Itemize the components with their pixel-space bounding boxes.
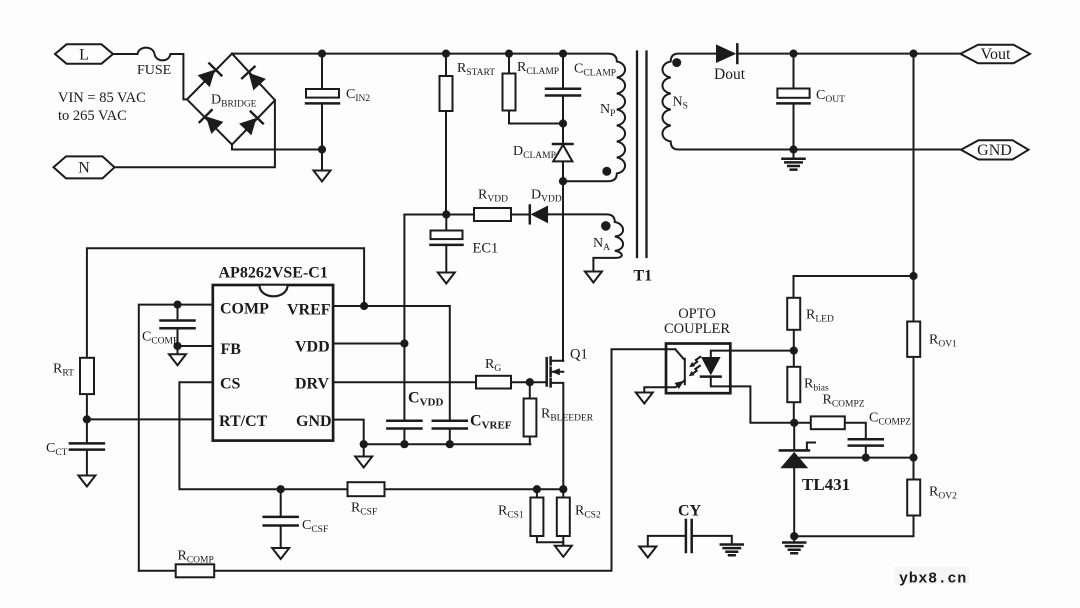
- opto coupler light arrow 2: [689, 366, 700, 377]
- diode bridge top-right: [242, 67, 266, 91]
- svg-text:COUPLER: COUPLER: [664, 321, 730, 337]
- node dot top rail CCLAMP: [559, 50, 567, 58]
- capacitor CVREF: [433, 421, 467, 429]
- wire CCSF stems: [280, 489, 282, 548]
- diode Dout: [716, 44, 737, 63]
- wire COUT lower stem: [793, 103, 795, 149]
- ground (open) CY left: [639, 547, 656, 558]
- wire VDD pin vertical: [403, 215, 405, 445]
- wire Vout rail: [738, 53, 961, 55]
- svg-text:ROV2: ROV2: [929, 485, 957, 502]
- wire VDD pin to IC: [333, 343, 404, 345]
- wire CY right: [692, 536, 732, 544]
- node dot top rail RSTART: [442, 50, 450, 58]
- transformer T1 primary winding NP: [563, 54, 625, 182]
- wire TL431 ref line: [800, 457, 914, 459]
- capacitor COUT bottom plate: [777, 102, 809, 105]
- svg-text:DRV: DRV: [295, 376, 330, 393]
- wire COUT upper stem: [793, 54, 795, 89]
- terminal GND: [961, 140, 1029, 159]
- svg-text:COUT: COUT: [816, 88, 845, 105]
- svg-text:RCLAMP: RCLAMP: [517, 60, 559, 77]
- resistor RRT: [80, 358, 94, 394]
- svg-text:CY: CY: [678, 503, 702, 520]
- transformer T1 secondary winding NS: [662, 54, 961, 150]
- svg-text:DBRIDGE: DBRIDGE: [211, 93, 257, 110]
- svg-text:DVDD: DVDD: [531, 188, 562, 205]
- resistor RG: [476, 376, 511, 389]
- wire RCS2 stems: [562, 536, 564, 546]
- terminal Vout: [961, 45, 1031, 64]
- node dot RT/CT RRT: [83, 415, 91, 423]
- svg-text:RCOMPZ: RCOMPZ: [823, 393, 865, 410]
- node dot cap rail CVREF: [446, 440, 454, 448]
- capacitor CIN2 electrolytic: [306, 89, 339, 98]
- svg-text:RBLEEDER: RBLEEDER: [541, 407, 594, 424]
- ground (open) under CCT: [78, 476, 95, 487]
- svg-text:RCS1: RCS1: [498, 504, 524, 521]
- node dot COMP CCOMP: [173, 301, 181, 309]
- wire RG to gate: [333, 381, 547, 383]
- opto coupler transistor emitter arrow: [675, 381, 684, 389]
- wire CCLAMP stems: [562, 54, 564, 124]
- wire fuse to bridge left corner: [171, 54, 188, 99]
- wire CCT stems: [86, 419, 88, 475]
- svg-text:RRT: RRT: [53, 362, 74, 379]
- wire drain vertical: [562, 181, 564, 361]
- resistor RCOMP: [176, 564, 215, 577]
- svg-text:ybx8.cn: ybx8.cn: [899, 571, 967, 588]
- wire VREF pin net: [333, 306, 450, 444]
- transistor Q1 body arrow: [551, 368, 560, 375]
- wire N to bridge right corner: [115, 100, 275, 167]
- svg-text:CVREF: CVREF: [470, 413, 512, 432]
- ground (open) under CIN2: [314, 171, 331, 182]
- wire FB pin: [178, 345, 214, 347]
- node dot VDD pin: [400, 339, 408, 347]
- svg-text:NA: NA: [593, 236, 610, 253]
- svg-text:TL431: TL431: [802, 475, 850, 494]
- resistor ROV1: [907, 322, 920, 357]
- ground (open) under RCS2: [555, 546, 572, 557]
- svg-text:GND: GND: [977, 142, 1012, 159]
- wire Vout feedback vertical: [794, 54, 913, 537]
- svg-text:EC1: EC1: [473, 241, 499, 257]
- svg-text:RVDD: RVDD: [478, 188, 508, 205]
- capacitor EC1 electrolytic: [431, 231, 463, 240]
- terminal L: [55, 44, 113, 63]
- svg-text:FB: FB: [221, 341, 242, 358]
- ground (earth) under COUT: [783, 159, 805, 170]
- resistor RCS2: [557, 498, 570, 537]
- diode bridge bottom-right: [239, 112, 263, 136]
- opto coupler light arrow 1: [689, 357, 700, 368]
- svg-text:RCS2: RCS2: [575, 504, 601, 521]
- resistor RCSF: [348, 482, 385, 496]
- svg-text:CCLAMP: CCLAMP: [574, 62, 616, 79]
- svg-text:NS: NS: [673, 95, 688, 112]
- capacitor CIN2 bottom plate: [306, 102, 339, 105]
- node dot RLED bottom: [790, 347, 798, 355]
- node dot Rbias bottom TL431: [790, 419, 798, 427]
- opto coupler box: [666, 344, 730, 394]
- svg-text:VDD: VDD: [295, 339, 330, 356]
- capacitor CVDD: [387, 421, 421, 429]
- ground (open) under CCOMP FB: [169, 354, 186, 365]
- svg-text:DCLAMP: DCLAMP: [513, 144, 556, 161]
- diode bridge bottom-left: [200, 110, 224, 134]
- wire bridge bottom to CIN2 ground rail: [232, 145, 322, 150]
- wire COMP pin: [139, 305, 213, 571]
- svg-text:OPTO: OPTO: [678, 306, 716, 322]
- node dot TL431 anode: [790, 532, 798, 540]
- svg-text:CCOMP: CCOMP: [142, 330, 178, 347]
- svg-text:Vout: Vout: [981, 46, 1011, 63]
- wire RBLEEDER stems: [529, 382, 531, 444]
- svg-text:RSTART: RSTART: [457, 61, 495, 78]
- capacitor CY: [686, 520, 692, 552]
- svg-text:Rbias: Rbias: [804, 377, 829, 394]
- svg-text:CCSF: CCSF: [302, 518, 328, 535]
- svg-text:RT/CT: RT/CT: [219, 413, 268, 430]
- node dot CS line RCS1: [533, 485, 541, 493]
- resistor RVDD: [474, 208, 511, 221]
- resistor RCLAMP: [503, 74, 516, 111]
- opto coupler LED leads: [711, 351, 794, 423]
- wire RLED top: [794, 276, 914, 351]
- svg-text:RG: RG: [485, 357, 501, 374]
- phase dot NS: [672, 58, 681, 67]
- wire Rbias stems: [793, 351, 795, 423]
- capacitor EC1 bottom plate: [431, 244, 463, 247]
- node dot primary bottom drain: [559, 177, 567, 185]
- TL431 ref tick: [807, 443, 815, 450]
- wire EC1 stems: [445, 215, 447, 273]
- wire RRT lower stem: [86, 394, 88, 419]
- wire top rail: [232, 53, 563, 55]
- diode bridge DBRIDGE diamond edges: [187, 54, 275, 145]
- transistor Q1 MOSFET: [547, 357, 551, 386]
- svg-text:to 265 VAC: to 265 VAC: [58, 108, 127, 124]
- ground (open) under CCSF: [272, 548, 289, 559]
- svg-text:CS: CS: [220, 376, 241, 393]
- svg-text:L: L: [79, 47, 89, 64]
- svg-text:RCOMP: RCOMP: [178, 549, 214, 566]
- capacitor CCOMP: [161, 321, 195, 329]
- wire DVDD anode to NA: [547, 213, 550, 215]
- wire TL431 cathode stem: [793, 423, 795, 449]
- svg-text:CIN2: CIN2: [346, 87, 370, 104]
- svg-text:CVDD: CVDD: [408, 390, 443, 409]
- wire DCLAMP stems: [562, 124, 564, 182]
- wire COUT earth stem: [793, 150, 795, 159]
- opto coupler transistor emitter: [644, 380, 685, 392]
- wire RCOMPZ net: [794, 423, 866, 458]
- svg-text:CCOMPZ: CCOMPZ: [869, 411, 911, 428]
- svg-text:CCT: CCT: [46, 441, 68, 458]
- transformer T1 core: [637, 52, 647, 258]
- node dot CS line RCS2 source: [559, 485, 567, 493]
- ground (open) opto emitter: [636, 393, 653, 404]
- TL431 U2: [780, 450, 809, 468]
- IC U1 notch: [260, 286, 288, 297]
- svg-text:ROV1: ROV1: [929, 333, 957, 350]
- node dot ROV divider: [909, 454, 917, 462]
- capacitor CCSF: [264, 517, 298, 526]
- wire CY left: [648, 536, 686, 547]
- capacitor CCT: [70, 443, 104, 449]
- svg-text:COMP: COMP: [220, 301, 269, 318]
- svg-text:Q1: Q1: [570, 347, 588, 363]
- watermark ybx8.cn: [894, 567, 969, 584]
- fuse FUSE: [138, 48, 171, 61]
- wire VDD rail EC1 to DVDD: [404, 213, 548, 215]
- svg-text:T1: T1: [634, 268, 653, 285]
- svg-text:VREF: VREF: [287, 302, 331, 319]
- svg-text:VIN = 85 VAC: VIN = 85 VAC: [58, 90, 146, 106]
- ground (open) under IC GND: [355, 457, 372, 468]
- node dot gate RG: [526, 378, 534, 386]
- phase dot NA: [601, 221, 611, 231]
- node dot feedback upper: [909, 272, 917, 280]
- transformer T1 auxiliary winding NA: [548, 214, 623, 271]
- svg-text:AP8262VSE-C1: AP8262VSE-C1: [219, 265, 328, 282]
- node dot GND rail COUT: [789, 145, 797, 153]
- transistor Q1 drain and source leads: [551, 361, 564, 498]
- capacitor CCLAMP: [546, 89, 580, 96]
- resistor RLED: [787, 298, 800, 330]
- resistor RBLEEDER: [524, 399, 537, 437]
- wire CIN2 upper stem: [321, 54, 323, 89]
- node dot cap rail CVDD: [400, 440, 408, 448]
- node dot VREF branch: [360, 302, 368, 310]
- ground (open) under NA: [585, 272, 602, 283]
- node dot FB CCOMP: [173, 342, 181, 350]
- wire RCS1 stems: [537, 489, 563, 542]
- node dot bridge bottom CIN2: [318, 145, 326, 153]
- resistor RCOMPZ: [811, 416, 845, 429]
- opto coupler transistor collector and base: [675, 349, 685, 384]
- wire RCLAMP stems: [509, 54, 563, 124]
- wire TL431 anode: [793, 468, 795, 542]
- ground (open) under EC1: [438, 273, 455, 284]
- svg-text:Dout: Dout: [714, 66, 746, 83]
- resistor RSTART: [440, 76, 453, 111]
- node dot top rail RCLAMP: [505, 50, 513, 58]
- terminal N: [54, 156, 115, 178]
- svg-text:FUSE: FUSE: [137, 63, 171, 78]
- wire CCOMP stems: [177, 305, 179, 355]
- svg-text:RLED: RLED: [806, 308, 834, 325]
- node dot CS line CCSF: [277, 485, 285, 493]
- wire RCOMP rail to opto collector: [139, 349, 676, 571]
- wire CS pin net: [179, 382, 563, 489]
- phase dot NP: [602, 167, 611, 176]
- capacitor CCOMPZ: [849, 439, 883, 445]
- wire RT/CT pin: [87, 418, 213, 420]
- node dot top rail CIN2: [318, 50, 326, 58]
- ground (earth) under TL431 anode: [783, 543, 805, 554]
- svg-text:NP: NP: [600, 102, 615, 119]
- svg-text:GND: GND: [296, 413, 332, 430]
- IC U1 AP8262VSE-C1 box: [213, 285, 333, 441]
- wire GND pin net: [333, 420, 530, 457]
- resistor Rbias: [787, 367, 800, 402]
- svg-text:RCSF: RCSF: [351, 501, 377, 518]
- node dot clamp bottom: [559, 119, 567, 127]
- opto coupler LED: [701, 357, 721, 377]
- diode DCLAMP (open): [553, 144, 573, 161]
- node dot cap rail GND: [360, 440, 368, 448]
- diode bridge top-left: [198, 63, 222, 87]
- wire L to fuse: [113, 53, 138, 55]
- resistor ROV2: [907, 480, 920, 516]
- node dot CCOMPZ ref: [862, 454, 870, 462]
- wire RSTART stems: [445, 54, 447, 215]
- wire CIN2 lower stem and ground stem: [321, 103, 323, 170]
- capacitor COUT electrolytic: [777, 89, 809, 98]
- node dot Vout rail feedback: [909, 50, 917, 58]
- resistor RCS1: [530, 498, 543, 537]
- wire VREF to RRT rail: [87, 248, 364, 357]
- node dot EC1 VDD rail: [442, 210, 450, 218]
- diode DVDD: [530, 206, 548, 224]
- svg-text:N: N: [78, 160, 90, 177]
- node dot Vout rail COUT: [789, 50, 797, 58]
- ground (earth) CY right: [721, 545, 743, 556]
